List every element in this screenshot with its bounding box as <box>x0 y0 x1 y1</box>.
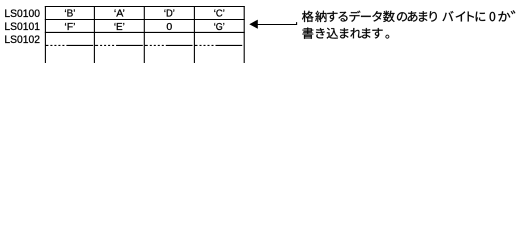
annotation text line 1: 格納するデータ数のあまりバイトに0が <box>302 10 515 22</box>
table column line 4 <box>193 6 195 63</box>
svg-text:‘D’: ‘D’ <box>164 8 175 20</box>
annotation text line 2: 書き込まれます。 <box>302 28 389 39</box>
table row line 2 <box>45 31 245 33</box>
arrow head <box>249 20 257 29</box>
svg-text:‘A’: ‘A’ <box>114 8 125 20</box>
svg-text:‘C’: ‘C’ <box>214 8 225 20</box>
svg-text:LS0100: LS0100 <box>4 8 40 20</box>
table row line 1 <box>45 19 245 21</box>
svg-text:LS0102: LS0102 <box>4 34 40 46</box>
svg-text:‘E’: ‘E’ <box>114 21 125 33</box>
continuation dashed row line <box>45 44 244 46</box>
svg-text:‘G’: ‘G’ <box>214 21 225 33</box>
table top border <box>45 6 245 8</box>
svg-text:LS0101: LS0101 <box>4 21 40 33</box>
arrow shaft <box>258 22 297 24</box>
svg-text:‘B’: ‘B’ <box>64 8 75 20</box>
svg-text:‘F’: ‘F’ <box>64 21 75 33</box>
svg-text:0: 0 <box>166 21 172 33</box>
table column line 2 <box>93 6 95 63</box>
table right border <box>243 6 245 63</box>
table column line 3 <box>143 6 145 63</box>
table left border <box>44 6 46 63</box>
